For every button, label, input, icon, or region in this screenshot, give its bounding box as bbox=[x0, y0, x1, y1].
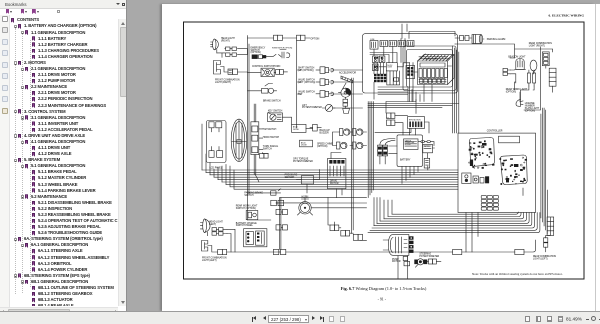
connector A mid bbox=[310, 124, 321, 131]
rear combination light right stack bbox=[542, 52, 549, 66]
svg-text:STICKER: STICKER bbox=[405, 144, 411, 146]
pump motor contactor dark bbox=[409, 236, 414, 253]
extra harness lines bbox=[230, 166, 458, 189]
harness vertical bundle mid bbox=[368, 102, 373, 198]
diagram frame bbox=[184, 22, 585, 279]
svg-text:(RIGHT): (RIGHT) bbox=[221, 41, 230, 43]
controller heatsink bbox=[499, 136, 520, 143]
key switch bbox=[268, 112, 283, 121]
contactor bottom squares bbox=[420, 79, 445, 84]
svg-text:LIGHT (LEFT): LIGHT (LEFT) bbox=[533, 259, 548, 261]
parking brake switch symbol bbox=[271, 189, 281, 195]
wires switches to panel bbox=[333, 70, 363, 108]
brake switch bbox=[248, 84, 277, 94]
valve switch lift unit 2 bbox=[316, 79, 334, 86]
fuse box 1 bbox=[370, 41, 378, 50]
harness left risers bbox=[202, 124, 226, 184]
bus connector pair 1 bbox=[271, 200, 284, 205]
at-00 diode box 1 bbox=[292, 124, 306, 132]
wire controller drops bbox=[466, 188, 523, 252]
bus connector pair 3 bbox=[276, 225, 287, 230]
svg-text:TILT: TILT bbox=[298, 94, 303, 96]
lift potentiometer symbol bbox=[322, 104, 335, 111]
svg-text:BUZZER: BUZZER bbox=[320, 132, 330, 134]
svg-text:CONTROLLER: CONTROLLER bbox=[487, 130, 503, 132]
parking alarm connectors bbox=[456, 36, 472, 41]
stepped connector b bbox=[341, 230, 350, 236]
svg-text:(OPTION): (OPTION) bbox=[506, 91, 517, 93]
rear work light resistor 1 bbox=[527, 70, 530, 86]
svg-text:SWITCH: SWITCH bbox=[244, 195, 253, 197]
connector block left of contactor bbox=[406, 66, 415, 79]
shift switch unit 1 bbox=[316, 67, 334, 74]
svg-text:POTENTIOMETER: POTENTIOMETER bbox=[302, 107, 322, 109]
connector below pump motor bbox=[403, 256, 409, 265]
connector A top bbox=[274, 35, 283, 40]
svg-text:POTENTIOMETER: POTENTIOMETER bbox=[293, 161, 313, 163]
svg-text:HORN SWITCH (OPTION): HORN SWITCH (OPTION) bbox=[272, 47, 293, 49]
svg-text:BATTERY: BATTERY bbox=[400, 159, 411, 162]
connector pair row2 bbox=[226, 53, 237, 56]
wire battery risers bbox=[402, 166, 418, 183]
back-up buzzer unit 2 bbox=[353, 129, 364, 136]
wire beacon feed vertical bbox=[510, 47, 541, 110]
svg-text:(LIFT (OPTION)): (LIFT (OPTION)) bbox=[298, 82, 315, 84]
emergency sub switch symbols bbox=[270, 50, 290, 59]
svg-text:- 91 -: - 91 - bbox=[378, 298, 387, 302]
wire eps leads bbox=[375, 122, 429, 133]
wires top mid bbox=[402, 24, 455, 39]
bottom long wire bbox=[286, 240, 536, 252]
bottom connector h1 bbox=[453, 249, 462, 254]
controller board 2 bbox=[500, 155, 527, 185]
svg-text:FUSE: FUSE bbox=[370, 39, 374, 41]
controller small parts bbox=[473, 176, 489, 183]
back-up buzzer unit 1 bbox=[340, 129, 351, 136]
harness mid risers bbox=[374, 198, 392, 226]
mid vertical bus bbox=[280, 198, 367, 255]
steering pot connector bbox=[423, 259, 441, 264]
harness controller bottom fan bbox=[368, 212, 540, 233]
control switch connector bbox=[276, 70, 288, 75]
wire nested loop B bbox=[407, 50, 453, 88]
relay K1 bbox=[373, 56, 379, 63]
wires right column bbox=[455, 38, 553, 102]
svg-text:LIGHT (RIGHT): LIGHT (RIGHT) bbox=[215, 82, 231, 84]
at-00 diode box 2 bbox=[300, 140, 313, 147]
svg-text:POTENTIOMETER: POTENTIOMETER bbox=[419, 256, 439, 258]
relay K3 bbox=[373, 64, 379, 71]
wire front comb to connector bbox=[221, 67, 248, 73]
stepped connector a bbox=[330, 225, 339, 231]
controller outline bbox=[458, 133, 536, 212]
svg-text:TRANSFORMER: TRANSFORMER bbox=[424, 57, 439, 60]
front combination light (left) bbox=[202, 241, 208, 252]
steering wheel bbox=[231, 119, 247, 161]
relay K2 bbox=[379, 56, 385, 63]
svg-text:Note: Trucks with an Orbitro: Note: Trucks with an Orbitrol steering s… bbox=[472, 272, 563, 276]
wires buzzer leads bbox=[333, 132, 367, 146]
controller relay bbox=[462, 173, 471, 184]
steering column stalk bbox=[254, 104, 259, 182]
mid bus second line bbox=[281, 24, 407, 249]
wires key/pressure bbox=[276, 170, 367, 208]
head light (right) lamp bbox=[213, 39, 216, 50]
bus connector pair 2 bbox=[276, 209, 287, 214]
fuse box 3 bbox=[389, 41, 397, 47]
fuse box 5 bbox=[407, 41, 414, 47]
license plate light bbox=[516, 100, 523, 107]
ops torque pot connector bbox=[260, 154, 269, 159]
svg-text:TIM SWITCH: TIM SWITCH bbox=[263, 129, 277, 131]
stepped connector c bbox=[353, 234, 362, 240]
fcl connector box bbox=[208, 246, 280, 255]
controller terminal grid bbox=[481, 195, 498, 210]
lcd panel bbox=[206, 121, 226, 163]
battery box bbox=[397, 135, 423, 167]
wires battery area bbox=[386, 100, 435, 171]
speed chime unit 2 bbox=[353, 142, 364, 149]
valve switch tilt unit 3 bbox=[316, 91, 334, 98]
accelerator connector stack bbox=[343, 99, 350, 113]
svg-text:DIODE: DIODE bbox=[301, 145, 307, 147]
svg-text:ACCELERATOR: ACCELERATOR bbox=[339, 72, 356, 75]
wire head light right leads bbox=[217, 49, 248, 58]
wire top option line bbox=[248, 37, 311, 39]
svg-text:6. ELECTRIC WIRING: 6. ELECTRIC WIRING bbox=[549, 14, 585, 18]
column switch block bbox=[251, 122, 259, 155]
head light (left) lamp bbox=[203, 219, 207, 233]
rear work light switch box bbox=[246, 211, 258, 220]
svg-text:MOTOR: MOTOR bbox=[414, 119, 422, 121]
beacon oval lamp bbox=[530, 60, 537, 71]
svg-text:CONTROL SWITCH/HORN: CONTROL SWITCH/HORN bbox=[252, 66, 281, 68]
svg-text:PARKING ALARM: PARKING ALARM bbox=[487, 38, 506, 41]
harness right bundle vertical bbox=[541, 108, 547, 234]
accelerator potentiometer bbox=[339, 88, 352, 99]
svg-text:DC/DC: DC/DC bbox=[387, 65, 393, 67]
emergency switch (option) dark blocks bbox=[252, 55, 270, 59]
connector above battery 1 bbox=[387, 113, 395, 118]
hl left connector row1 bbox=[212, 228, 227, 231]
svg-text:HORN SWITCH: HORN SWITCH bbox=[263, 137, 280, 139]
wire hl left to bus bbox=[227, 229, 235, 252]
connector pair row1 bbox=[225, 47, 237, 50]
wires drive motor bbox=[331, 153, 342, 198]
battery charge switch panel bbox=[244, 229, 267, 247]
horn bbox=[298, 198, 313, 215]
fuse box 2 bbox=[380, 41, 388, 47]
connector above battery 2 bbox=[387, 120, 395, 125]
control switch / horn body bbox=[261, 68, 274, 76]
svg-text:MOTOR: MOTOR bbox=[330, 183, 339, 185]
hl left connector row2 bbox=[212, 232, 227, 235]
relay pin dots bbox=[374, 57, 382, 68]
svg-text:(LEFT): (LEFT) bbox=[209, 224, 216, 226]
svg-text:SWITCH (OPTION): SWITCH (OPTION) bbox=[236, 208, 256, 210]
pump motor bbox=[383, 235, 409, 256]
wire nested loop A bbox=[403, 46, 456, 91]
svg-text:(UP (OPTION)): (UP (OPTION)) bbox=[298, 70, 314, 72]
svg-text:SWITCH PANEL: SWITCH PANEL bbox=[236, 224, 254, 227]
drive motor bbox=[328, 159, 346, 189]
connector A1 bbox=[228, 69, 238, 74]
svg-text:DIODE: DIODE bbox=[293, 129, 299, 131]
rear work light resistor 2 bbox=[533, 70, 536, 86]
svg-text:SENSOR: SENSOR bbox=[285, 177, 295, 179]
bottom connector h2 bbox=[515, 249, 524, 254]
fuse box 4 bbox=[398, 41, 406, 47]
battery switch small box bbox=[418, 141, 434, 169]
eps motor bbox=[408, 117, 425, 129]
rear comb left connector bbox=[544, 217, 551, 251]
right cluster bbox=[525, 316, 530, 322]
rear combination light left ladder bbox=[547, 217, 554, 235]
bus connector pair 4 bbox=[273, 249, 285, 254]
speed chime unit 1 bbox=[337, 142, 348, 149]
wire option riser bbox=[297, 40, 301, 128]
controller board 1 bbox=[470, 138, 495, 167]
svg-text:OPTION: OPTION bbox=[311, 38, 320, 40]
front combination light (right) bbox=[214, 61, 221, 75]
wire panel bottom rows bbox=[368, 104, 459, 108]
svg-text:LIGHT (LEFT): LIGHT (LEFT) bbox=[202, 260, 217, 262]
rear combination light right ladder bbox=[549, 68, 556, 86]
parking alarm body bbox=[472, 35, 483, 44]
wire contactor leads bbox=[414, 66, 452, 102]
wires cluster mid left bbox=[248, 117, 313, 220]
svg-text:(OPTION): (OPTION) bbox=[317, 146, 328, 148]
svg-text:LIGHT (RIGHT): LIGHT (RIGHT) bbox=[529, 46, 545, 48]
svg-text:KEY SWITCH: KEY SWITCH bbox=[268, 111, 283, 113]
beacon light bbox=[515, 59, 526, 70]
svg-text:(OPTION): (OPTION) bbox=[251, 52, 262, 54]
svg-text:CAUTION: CAUTION bbox=[405, 139, 411, 142]
controller board dark parts bbox=[470, 143, 519, 182]
wire accel vertical pair bbox=[352, 78, 399, 234]
svg-text:MOTOR: MOTOR bbox=[392, 261, 401, 263]
steering potentiometer bbox=[415, 259, 427, 268]
svg-text:CONV: CONV bbox=[387, 67, 393, 69]
svg-text:BRAKE SWITCH: BRAKE SWITCH bbox=[263, 99, 281, 102]
contactor assembly 3d box bbox=[418, 55, 455, 85]
accelerator pedal bbox=[341, 76, 353, 89]
svg-text:HORN: HORN bbox=[302, 196, 309, 198]
wire main left bus bbox=[248, 36, 250, 221]
wire panel right nested loop 1 bbox=[453, 44, 459, 133]
pressure sensor box bbox=[302, 176, 314, 185]
svg-text:BEACON LIGHT: BEACON LIGHT bbox=[508, 55, 526, 58]
connector B top bbox=[297, 35, 306, 40]
contactor top hatch bbox=[419, 54, 452, 61]
connector grid dark bbox=[374, 74, 386, 82]
dc/dc converter bbox=[386, 63, 397, 71]
svg-text:LCD PANEL: LCD PANEL bbox=[210, 166, 223, 169]
svg-text:SWITCH: SWITCH bbox=[424, 146, 430, 148]
wire control switch bus bbox=[248, 71, 276, 73]
wire harness horizontal runs bbox=[202, 170, 458, 184]
wire panel inner verticals bbox=[374, 39, 413, 102]
svg-text:SWITCH: SWITCH bbox=[263, 148, 272, 150]
wires pump motor down bbox=[328, 198, 408, 279]
svg-text:(OPTION): (OPTION) bbox=[525, 110, 536, 112]
battery plug connector bbox=[378, 139, 395, 164]
beacon connector pair bbox=[503, 68, 510, 75]
svg-text:Fig. 6.7 Wiring Diagram (1.0: Fig. 6.7 Wiring Diagram (1.0- to 1.5-ton… bbox=[341, 286, 427, 291]
central relay panel box bbox=[363, 34, 458, 93]
wire panel inner mesh bbox=[370, 53, 420, 102]
